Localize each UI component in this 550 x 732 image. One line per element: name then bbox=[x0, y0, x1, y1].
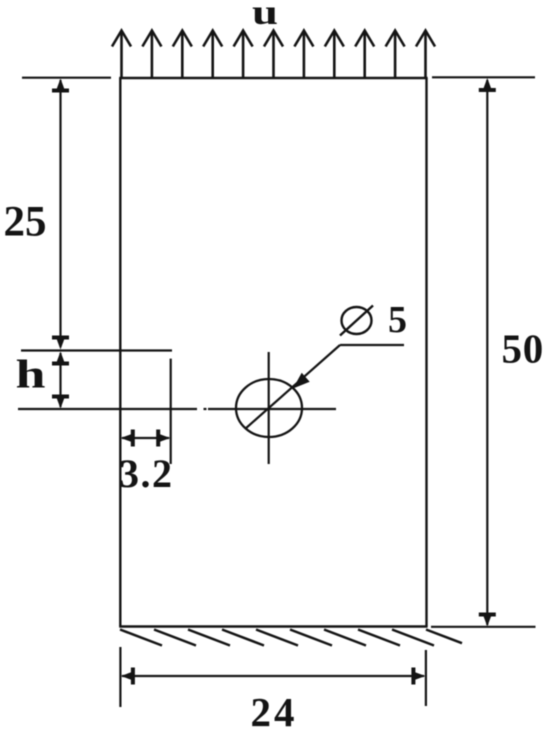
svg-text:25: 25 bbox=[4, 199, 47, 246]
svg-text:h: h bbox=[16, 352, 46, 397]
svg-text:24: 24 bbox=[251, 689, 298, 732]
svg-text:50: 50 bbox=[502, 326, 545, 372]
svg-text:u: u bbox=[252, 0, 278, 32]
svg-text:5: 5 bbox=[388, 299, 407, 341]
svg-text:3.2: 3.2 bbox=[119, 451, 174, 496]
